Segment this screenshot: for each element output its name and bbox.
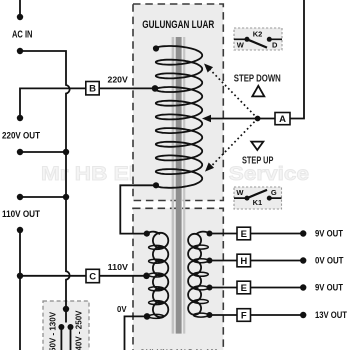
svg-text:220V OUT: 220V OUT <box>2 130 40 141</box>
svg-text:AC IN: AC IN <box>12 30 33 41</box>
svg-text:STEP DOWN: STEP DOWN <box>234 74 281 85</box>
svg-text:C: C <box>89 271 96 282</box>
svg-text:9V OUT: 9V OUT <box>315 283 343 293</box>
svg-text:D: D <box>272 40 278 49</box>
svg-text:W: W <box>237 40 245 49</box>
svg-text:13V OUT: 13V OUT <box>315 310 347 320</box>
svg-text:110V OUT: 110V OUT <box>2 209 40 220</box>
svg-text:W: W <box>236 188 244 197</box>
svg-text:B: B <box>89 84 96 95</box>
svg-text:0V: 0V <box>117 304 127 314</box>
svg-text:K1: K1 <box>253 198 263 207</box>
svg-text:H: H <box>240 256 247 267</box>
svg-text:110V: 110V <box>108 262 129 272</box>
svg-text:E: E <box>241 229 247 240</box>
svg-text:50V - 130V: 50V - 130V <box>49 311 58 350</box>
svg-text:9V OUT: 9V OUT <box>315 229 343 239</box>
svg-text:STEP UP: STEP UP <box>242 156 274 167</box>
svg-text:A: A <box>279 114 286 125</box>
svg-text:E: E <box>241 283 247 294</box>
svg-text:140V - 250V: 140V - 250V <box>75 310 84 350</box>
svg-text:K2: K2 <box>253 30 263 39</box>
svg-text:220V: 220V <box>108 75 129 85</box>
svg-text:F: F <box>241 310 247 321</box>
svg-text:G: G <box>271 188 277 197</box>
svg-text:GULUNGAN LUAR: GULUNGAN LUAR <box>142 19 214 31</box>
svg-text:0V OUT: 0V OUT <box>315 256 344 266</box>
